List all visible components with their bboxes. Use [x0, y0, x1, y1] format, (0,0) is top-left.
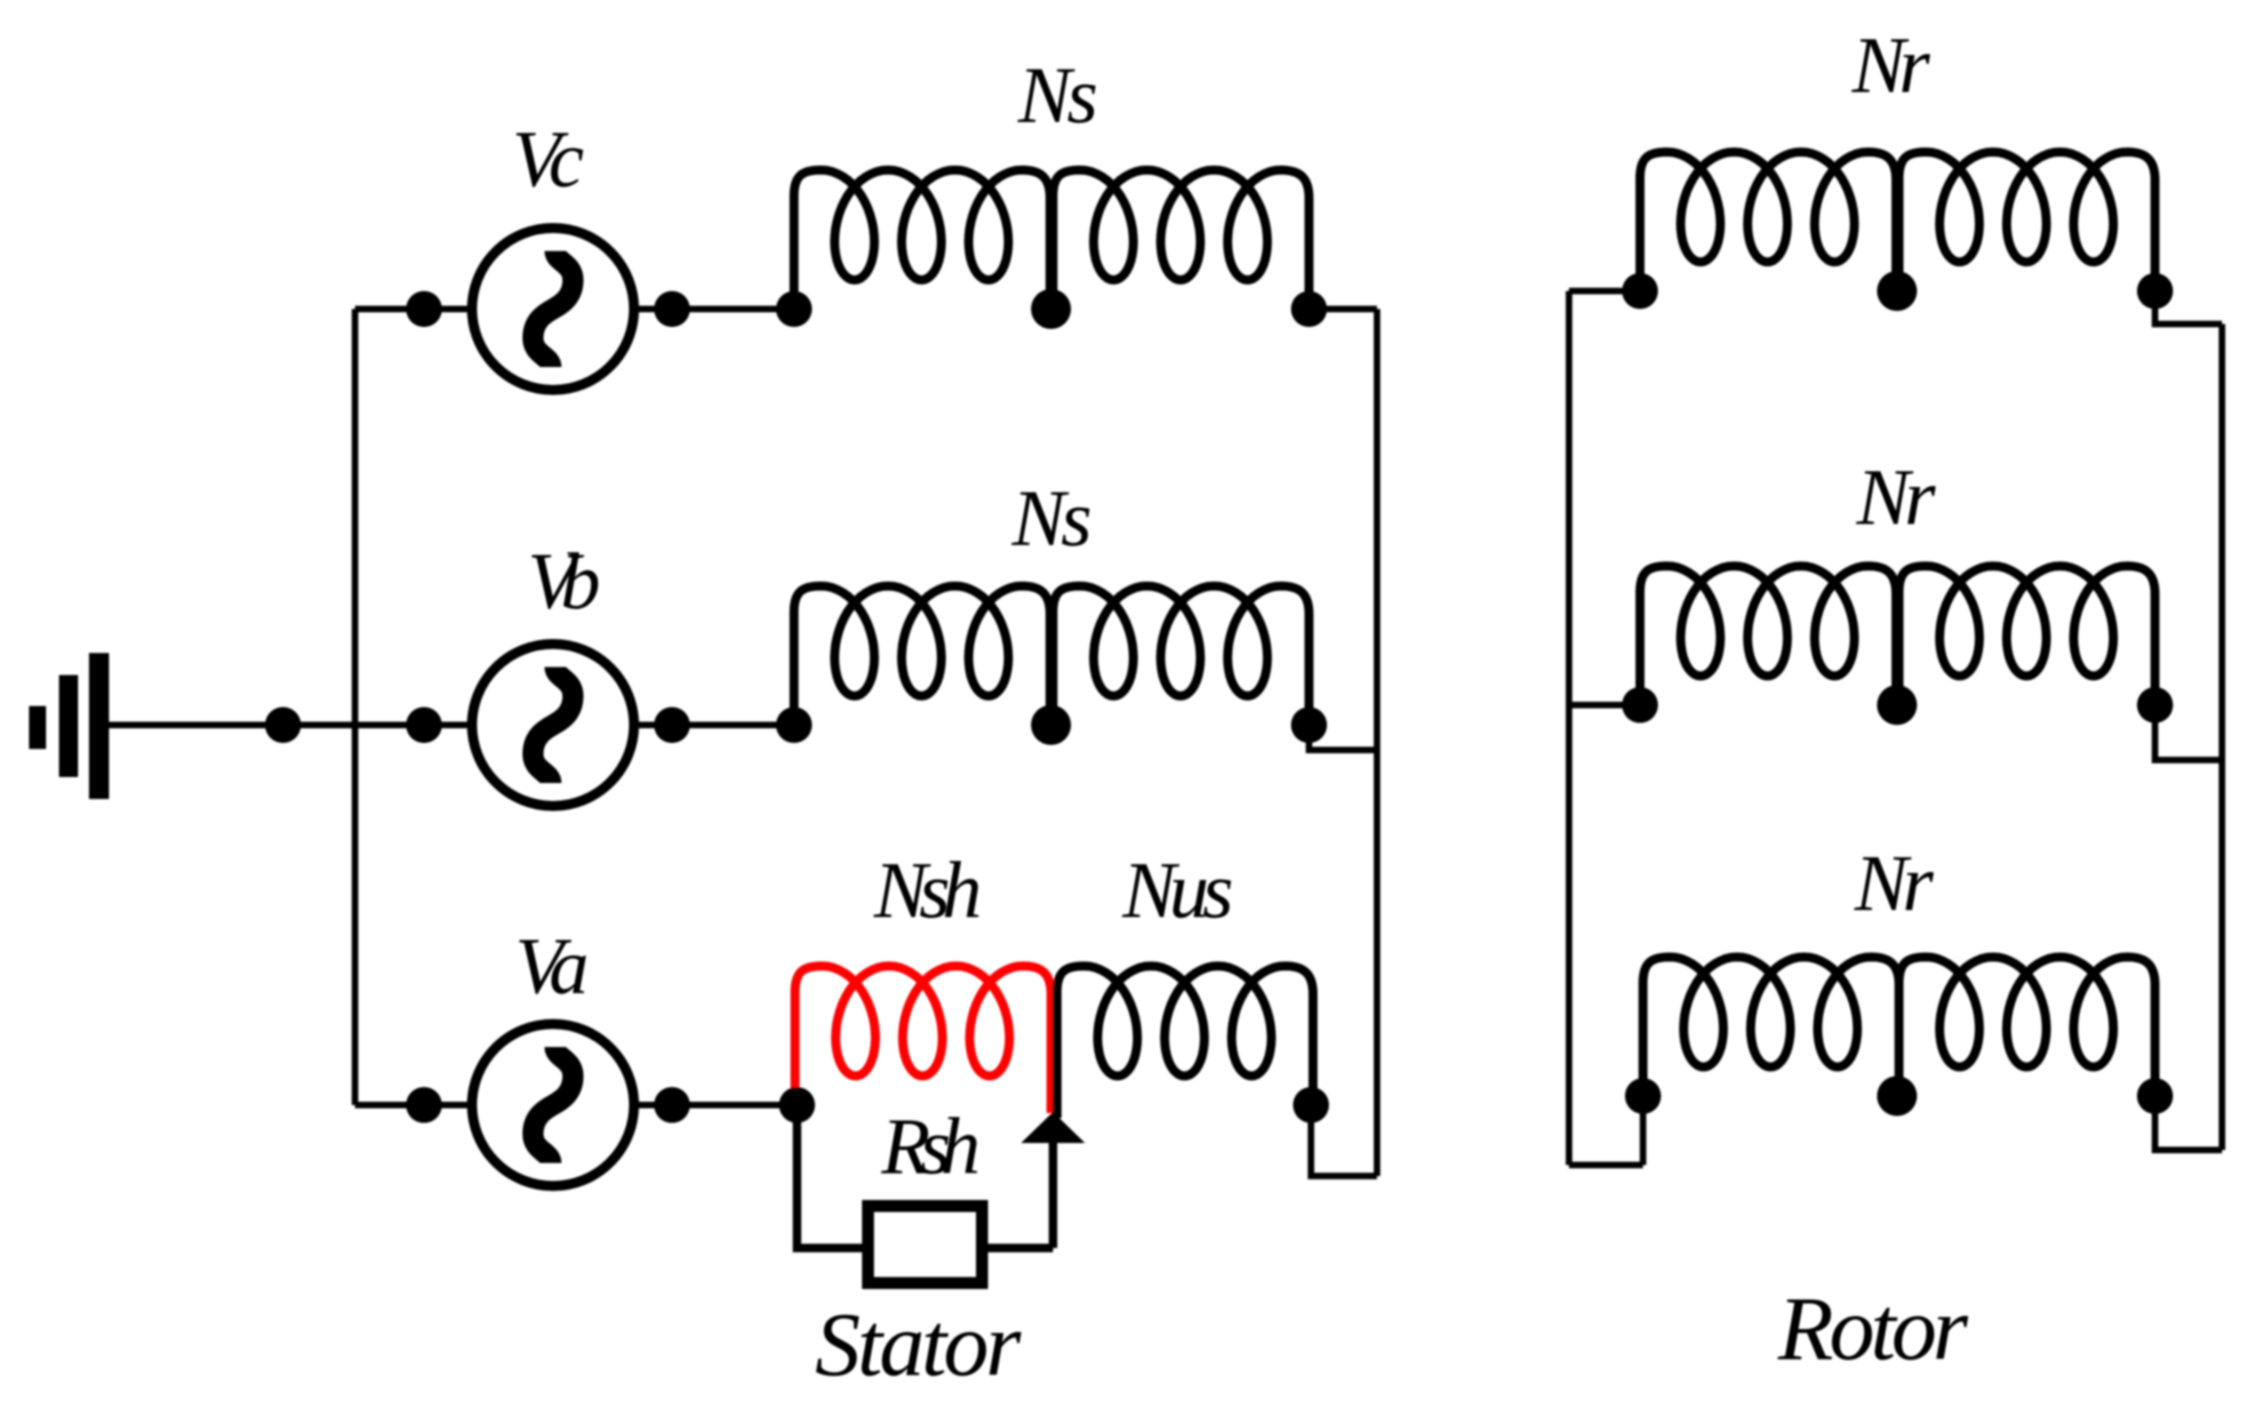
svg-text:Ns: Ns — [1011, 475, 1092, 563]
svg-text:Ns: Ns — [1017, 52, 1098, 140]
svg-text:Stator: Stator — [815, 1294, 1022, 1395]
svg-text:Nsh: Nsh — [873, 847, 982, 935]
svg-text:Nr: Nr — [1851, 22, 1931, 110]
svg-text:Nr: Nr — [1854, 840, 1935, 928]
svg-text:Nr: Nr — [1856, 454, 1937, 542]
svg-text:Rotor: Rotor — [1777, 1278, 1969, 1379]
svg-text:Rsh: Rsh — [881, 1103, 981, 1191]
svg-text:Vb: Vb — [528, 538, 601, 626]
svg-text:Va: Va — [515, 923, 589, 1011]
svg-text:Nus: Nus — [1122, 847, 1234, 935]
svg-text:Vc: Vc — [512, 116, 584, 204]
